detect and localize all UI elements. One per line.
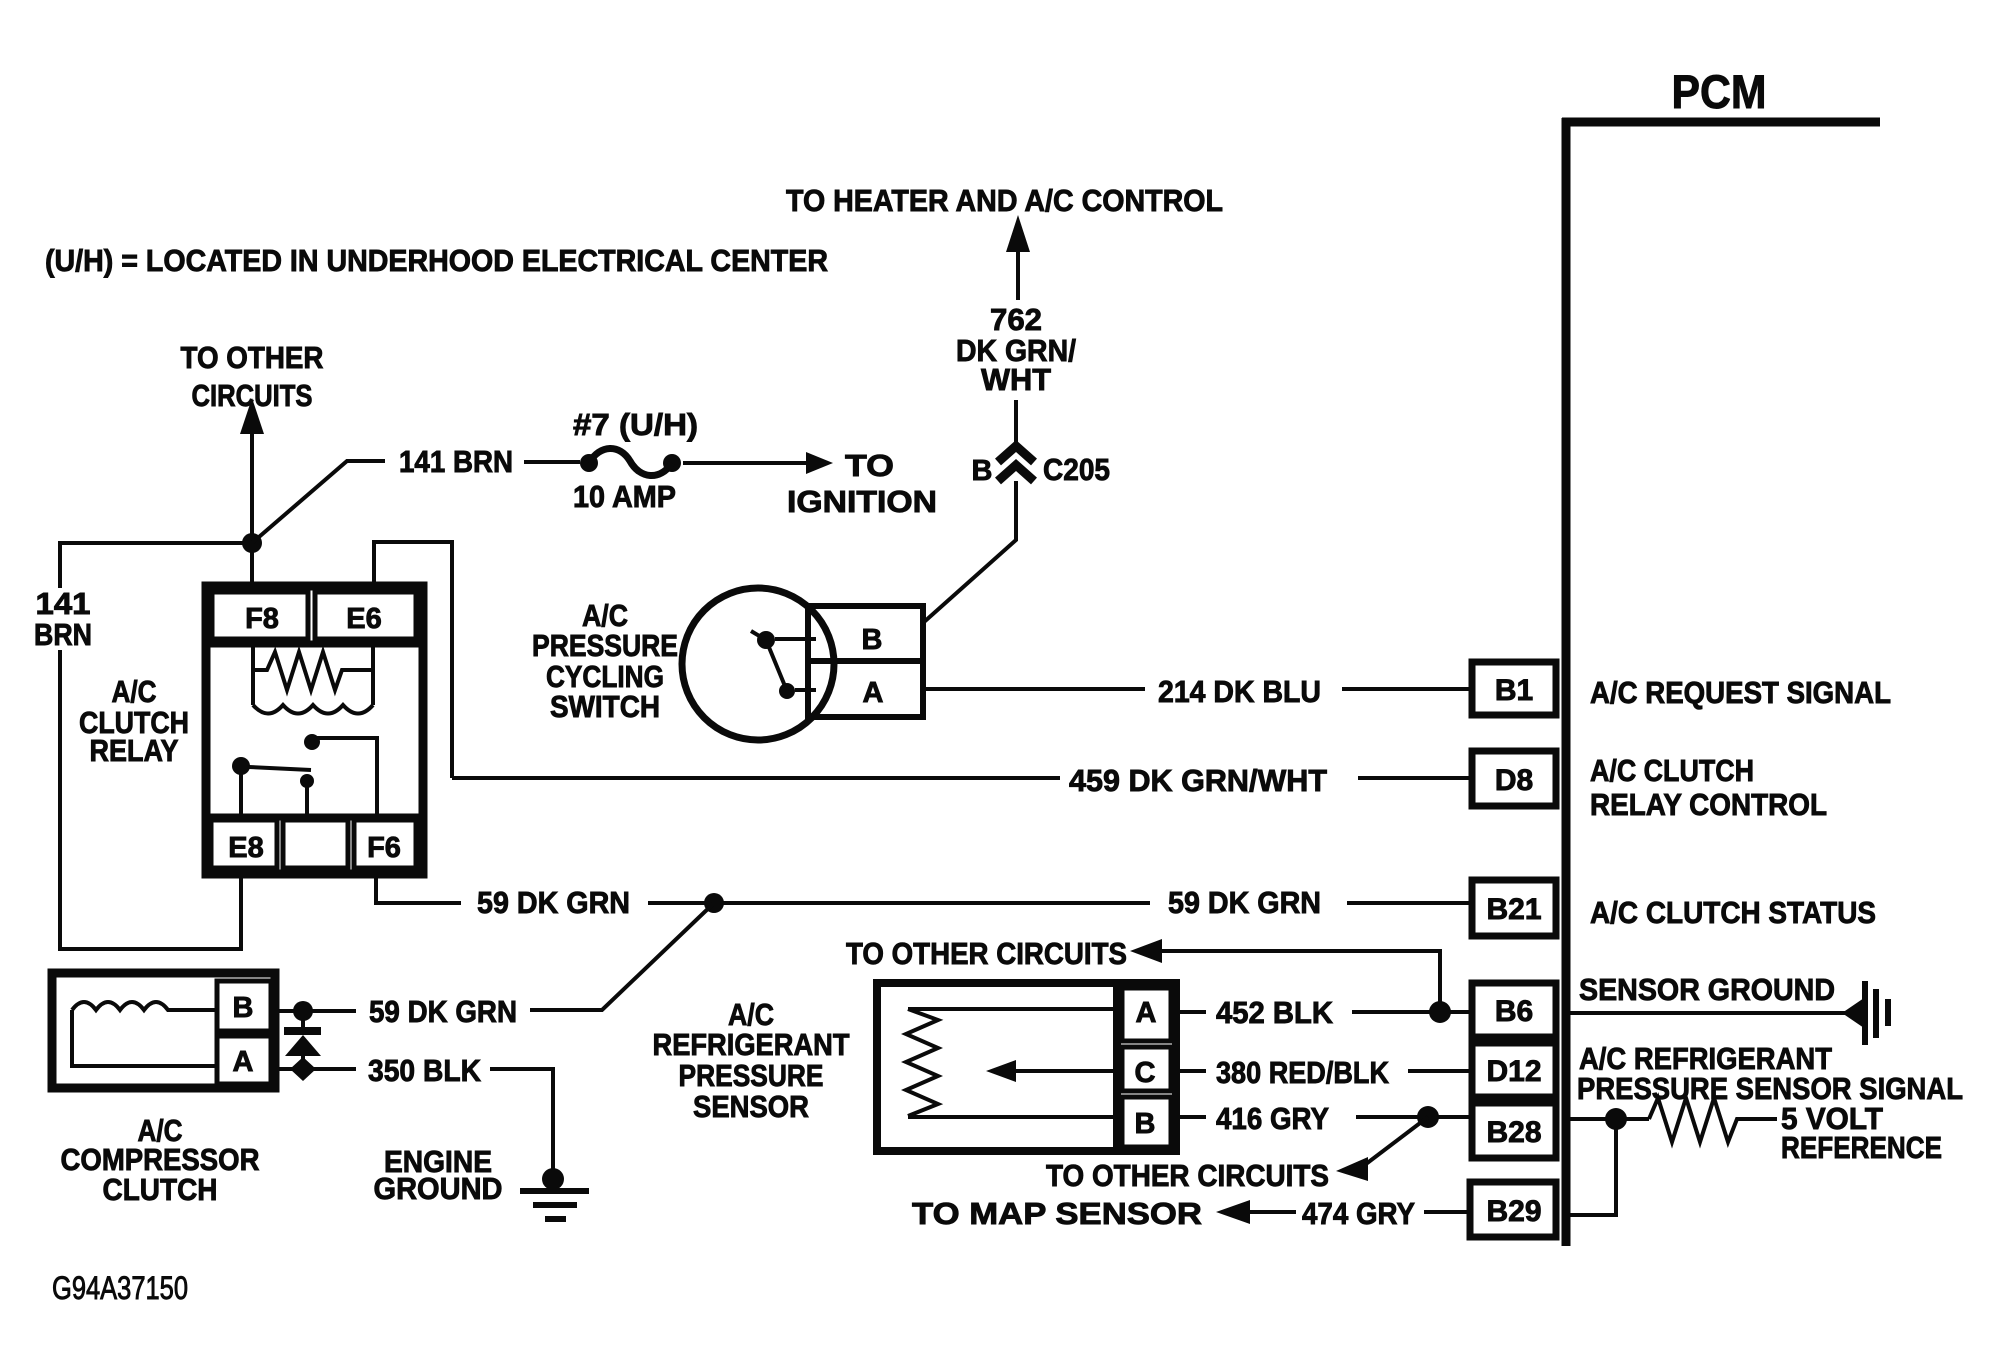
note (U/H) legend [45, 243, 828, 278]
switch A/C pressure cycling switch label [532, 598, 678, 724]
PCM label [1672, 65, 1767, 118]
svg-text:59 DK GRN: 59 DK GRN [369, 994, 517, 1029]
svg-text:#7 (U/H): #7 (U/H) [573, 407, 698, 442]
pin E8 [211, 820, 277, 868]
svg-text:SWITCH: SWITCH [550, 689, 660, 724]
wire 5 volt reference with resistor [1566, 1098, 1777, 1142]
svg-text:10 AMP: 10 AMP [573, 479, 676, 514]
svg-text:TO: TO [845, 448, 894, 483]
PCM boundary [1562, 118, 1880, 1246]
wire 452 BLK to B6 [1176, 1010, 1472, 1014]
ground engine ground [520, 1168, 589, 1219]
svg-text:762: 762 [990, 302, 1042, 337]
svg-text:A/C: A/C [112, 674, 157, 709]
wire arrow to ignition [683, 452, 833, 474]
wire above connector [1014, 400, 1018, 446]
pin D12 [1472, 1043, 1556, 1097]
wire 214 DK BLU to B1 [923, 687, 1472, 691]
svg-text:C205: C205 [1043, 452, 1110, 487]
wire F8 to junction [250, 543, 254, 586]
wire 416 GRY to B28 [1176, 1115, 1472, 1119]
svg-text:IGNITION: IGNITION [787, 484, 937, 519]
relay divider top [206, 641, 423, 648]
svg-text:CLUTCH: CLUTCH [103, 1172, 218, 1207]
svg-text:C: C [1135, 1057, 1156, 1089]
clutch coil [72, 1002, 217, 1066]
node TO IGNITION [787, 448, 937, 519]
svg-text:452 BLK: 452 BLK [1216, 995, 1334, 1030]
svg-text:A/C CLUTCH: A/C CLUTCH [1590, 753, 1754, 788]
pin E6 [315, 592, 416, 639]
wire label 141 BRN (left) [34, 586, 92, 652]
svg-text:F6: F6 [367, 832, 401, 864]
switch contacts [751, 631, 816, 699]
svg-text:A: A [863, 677, 884, 709]
svg-text:B6: B6 [1495, 995, 1533, 1028]
clutch A/C compressor clutch label [61, 1113, 260, 1207]
wire 474 GRY to B29 [1216, 1200, 1470, 1224]
svg-text:A/C CLUTCH STATUS: A/C CLUTCH STATUS [1590, 895, 1876, 930]
svg-text:SENSOR GROUND: SENSOR GROUND [1579, 972, 1835, 1007]
wire label 59 DK GRN (bottom) [369, 994, 517, 1029]
pin B1 [1472, 662, 1556, 715]
sensor R1 outer box [877, 983, 1176, 1151]
clutch L1 outer box [52, 973, 275, 1088]
junction 416 GRY [1417, 1106, 1439, 1128]
svg-text:B29: B29 [1486, 1195, 1541, 1228]
relay K1 outer box [206, 586, 423, 874]
relay contact throw stub [300, 774, 314, 820]
wire A stub 350 BLK [275, 1069, 553, 1172]
pin B29 [1470, 1182, 1556, 1237]
fuse #7 10 AMP [580, 448, 681, 475]
svg-text:G94A37150: G94A37150 [52, 1270, 188, 1306]
svg-text:D12: D12 [1486, 1055, 1541, 1088]
junction 452 BLK [1429, 1001, 1451, 1023]
pin C (sensor) [1122, 1047, 1171, 1091]
sensor element zigzag [906, 1009, 1117, 1117]
relay contact movable arm [232, 757, 311, 820]
svg-text:TO OTHER CIRCUITS: TO OTHER CIRCUITS [1046, 1158, 1329, 1193]
svg-text:B1: B1 [1495, 674, 1533, 707]
svg-text:PRESSURE SENSOR SIGNAL: PRESSURE SENSOR SIGNAL [1577, 1071, 1963, 1106]
pin F8 [212, 592, 308, 639]
pin B (switch) [862, 624, 883, 656]
svg-text:B: B [1135, 1108, 1156, 1140]
wire 762 DK GRN/WHT label [956, 302, 1076, 397]
pin function labels [1577, 675, 1963, 1165]
wire arrow to heater control [1006, 215, 1030, 300]
svg-text:GROUND: GROUND [374, 1171, 503, 1206]
relay A/C clutch relay label [79, 674, 189, 768]
pin (blank middle) [283, 820, 348, 868]
pin F6 [354, 820, 416, 868]
svg-text:474 GRY: 474 GRY [1302, 1196, 1415, 1231]
junction 5 volt reference [1605, 1108, 1627, 1130]
svg-text:PCM: PCM [1672, 65, 1767, 118]
wire 380 RED/BLK to D12 [1176, 1069, 1472, 1073]
wire 459 DK GRN/WHT to D8 [452, 776, 1472, 780]
switch connector box [808, 606, 923, 717]
pin A (switch) [863, 677, 884, 709]
pin B21 [1472, 880, 1556, 936]
svg-text:E8: E8 [228, 832, 263, 864]
svg-text:RELAY CONTROL: RELAY CONTROL [1590, 787, 1827, 822]
svg-text:REFERENCE: REFERENCE [1781, 1130, 1942, 1165]
svg-text:RELAY: RELAY [90, 733, 179, 768]
wire E6 to relay control [374, 542, 452, 778]
wire from C205 to pressure cycling switch [924, 481, 1016, 622]
wire branch to other circuits (lower) [1336, 1117, 1428, 1181]
wire 59 DK GRN (relay F6 to B21) [477, 885, 630, 920]
wire leader to 141 BRN label [252, 461, 385, 543]
relay divider bottom [206, 814, 423, 821]
svg-text:459 DK GRN/WHT: 459 DK GRN/WHT [1069, 763, 1327, 798]
junction diode top [293, 1001, 313, 1021]
note G94A37150 [52, 1270, 188, 1306]
svg-text:PRESSURE: PRESSURE [532, 628, 678, 663]
svg-text:REFRIGERANT: REFRIGERANT [653, 1027, 850, 1062]
wire sensor ground (B6 right) [1566, 1011, 1846, 1015]
svg-text:D8: D8 [1495, 764, 1533, 797]
svg-text:B21: B21 [1486, 893, 1541, 926]
pin B28 [1472, 1103, 1556, 1158]
svg-text:141: 141 [36, 586, 91, 621]
svg-text:416 GRY: 416 GRY [1216, 1101, 1329, 1136]
svg-text:59 DK GRN: 59 DK GRN [1168, 885, 1321, 920]
junction 141 BRN node [242, 533, 262, 553]
svg-text:B: B [233, 992, 254, 1024]
svg-text:TO OTHER CIRCUITS: TO OTHER CIRCUITS [846, 936, 1127, 971]
svg-text:380 RED/BLK: 380 RED/BLK [1216, 1055, 1390, 1090]
diode CR1 [284, 1011, 321, 1081]
wire 141 BRN feed bracket (junction to E8) [60, 543, 252, 949]
pin B6 [1472, 983, 1556, 1037]
pin A (sensor) [1122, 988, 1171, 1041]
pin D8 [1472, 751, 1556, 806]
wire diagonal 59 DK GRN branch [530, 903, 714, 1010]
svg-text:B: B [862, 624, 883, 656]
wire to fuse [524, 460, 580, 464]
switch S1 body circle [682, 588, 834, 740]
svg-text:214 DK BLU: 214 DK BLU [1158, 674, 1321, 709]
svg-text:BRN: BRN [34, 617, 92, 652]
junction 59 DK GRN [704, 893, 724, 913]
wire label 141 BRN [399, 444, 513, 479]
svg-text:SENSOR: SENSOR [693, 1089, 809, 1124]
ground sensor ground symbol [1842, 981, 1888, 1045]
pin B (sensor) [1122, 1097, 1171, 1147]
svg-text:E6: E6 [346, 603, 381, 635]
svg-text:TO MAP SENSOR: TO MAP SENSOR [912, 1196, 1202, 1231]
svg-text:141 BRN: 141 BRN [399, 444, 513, 479]
svg-text:59 DK GRN: 59 DK GRN [477, 885, 630, 920]
wire branch to other circuits (upper) [1130, 939, 1440, 1012]
svg-text:A: A [233, 1046, 254, 1078]
sensor A/C refrigerant pressure sensor label [653, 997, 850, 1124]
pin A (clutch) [217, 1036, 271, 1084]
connector C205 pin B [998, 446, 1034, 481]
svg-text:WHT: WHT [981, 362, 1051, 397]
svg-text:B: B [972, 455, 993, 487]
wire B stub to 59 DK GRN [271, 1009, 356, 1013]
relay coil [253, 646, 373, 714]
svg-text:TO OTHER: TO OTHER [181, 340, 324, 375]
svg-text:B28: B28 [1486, 1116, 1541, 1149]
svg-text:350 BLK: 350 BLK [368, 1053, 482, 1088]
relay contact fixed [304, 734, 377, 817]
svg-text:A: A [1136, 997, 1157, 1029]
node TO HEATER AND A/C CONTROL [786, 183, 1223, 218]
wire B29 to 5 volt reference [1568, 1119, 1616, 1215]
svg-text:TO HEATER AND A/C CONTROL: TO HEATER AND A/C CONTROL [786, 183, 1223, 218]
wire F6 down elbow [376, 874, 461, 903]
node TO OTHER CIRCUITS (left) [181, 340, 324, 413]
svg-text:F8: F8 [245, 603, 279, 635]
wire arrow up to other circuits [240, 398, 264, 586]
svg-text:A/C REQUEST SIGNAL: A/C REQUEST SIGNAL [1590, 675, 1891, 710]
svg-text:PRESSURE: PRESSURE [679, 1058, 824, 1093]
svg-text:(U/H) = LOCATED IN UNDERHOOD E: (U/H) = LOCATED IN UNDERHOOD ELECTRICAL … [45, 243, 828, 278]
pin B (clutch) [217, 981, 271, 1031]
sensor wiper arrow [986, 1060, 1117, 1082]
